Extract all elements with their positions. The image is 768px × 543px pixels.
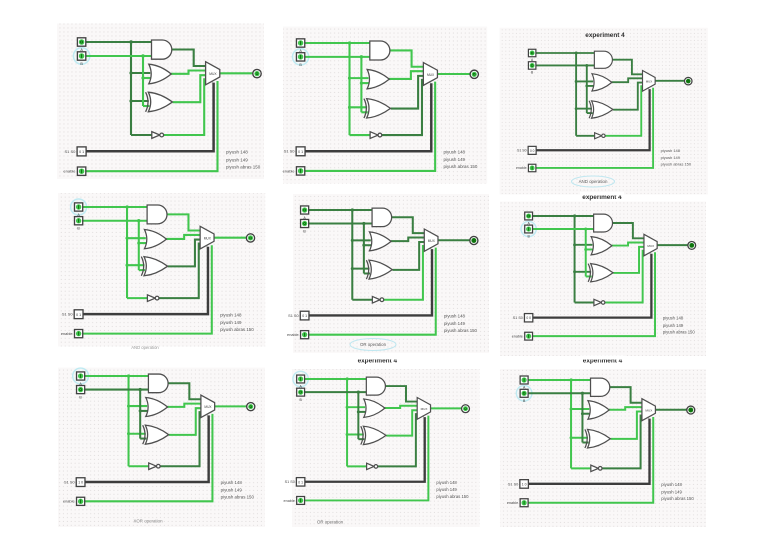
title "experiment 4" above panel 9	[581, 355, 625, 364]
wire: 2-bit select bus from S1S0 pin to MUX (panel 4)	[83, 247, 208, 314]
OR gate (panel 4)	[144, 230, 166, 249]
selection halo around pin B (panel 1)	[73, 48, 89, 64]
svg-text:piyush 149: piyush 149	[444, 157, 466, 162]
wire: OR gate output to MUX input 1 (panel 3)	[612, 78, 643, 82]
AND gate (panel 4)	[147, 205, 167, 224]
XOR gate (panel 1)	[146, 92, 173, 112]
input pin enable (panel 2)	[296, 167, 304, 175]
svg-text:piyush abras 150: piyush abras 150	[220, 327, 254, 332]
svg-text:enable: enable	[63, 169, 76, 174]
output pin (panel 1)	[253, 69, 261, 77]
selection halo around pin A (panel 4)	[71, 199, 87, 215]
multiplexer MUX (panel 2)	[423, 63, 437, 86]
title "experiment 4" above panel 8	[355, 355, 399, 364]
XOR gate (panel 5)	[366, 260, 392, 279]
wire: net B from pin B to AND/OR/XOR inputs (panel 2)	[305, 57, 370, 112]
output pin (panel 8)	[462, 405, 470, 413]
input pin enable (panel 4)	[74, 330, 82, 338]
wire: net B from pin B to AND/OR/XOR inputs (panel 9)	[528, 393, 590, 442]
caption oval "AND operation" under panel 3	[572, 176, 615, 187]
wire: OR gate output to MUX input 1 (panel 4)	[166, 235, 200, 239]
input pin A (panel 7)	[77, 372, 85, 380]
OR gate (panel 7)	[146, 398, 168, 417]
output pin (panel 4)	[246, 234, 254, 242]
annotation text piyush (panel 6)	[663, 316, 695, 335]
svg-text:piyush 149: piyush 149	[444, 321, 466, 326]
wire: NOT gate output to MUX input 3 (panel 3)	[605, 86, 642, 136]
svg-text:0 1: 0 1	[298, 150, 303, 154]
svg-text:piyush 148: piyush 148	[444, 149, 466, 154]
output pin (panel 9)	[687, 406, 695, 414]
wire: enable from pin to MUX (panel 2)	[305, 82, 435, 171]
wire: MUX output to output pin (panel 2)	[437, 73, 469, 75]
wire: net B from pin B to AND/OR/XOR inputs (panel 7)	[85, 390, 149, 439]
annotation text piyush (panel 3)	[661, 148, 692, 166]
svg-text:piyush 149: piyush 149	[663, 323, 684, 328]
output pin (panel 7)	[247, 403, 255, 411]
wire: AND gate output to MUX input 0 (panel 4)	[167, 214, 201, 230]
wire: OR gate output to MUX input 1 (panel 1)	[171, 71, 206, 74]
svg-text:AND operation: AND operation	[579, 179, 608, 184]
wire: net A from pin A to AND/OR/XOR/NOT inputs (panel 9)	[528, 380, 590, 468]
wire: AND gate output to MUX input 0 (panel 8)	[385, 386, 417, 402]
input pin B (panel 1)	[77, 52, 85, 60]
XOR gate (panel 4)	[141, 257, 167, 276]
input pin enable (panel 1)	[77, 167, 85, 175]
svg-text:0 1: 0 1	[298, 480, 303, 484]
input pin enable (panel 5)	[301, 331, 309, 339]
input pin A (panel 2)	[296, 39, 304, 47]
OR gate (panel 3)	[592, 74, 612, 91]
input pin B (panel 6)	[525, 225, 533, 233]
svg-text:MUX: MUX	[428, 239, 436, 243]
svg-text:piyush 148: piyush 148	[663, 316, 684, 321]
wire: enable from pin to MUX (panel 9)	[528, 417, 653, 503]
input pin A (panel 5)	[301, 206, 309, 214]
svg-text:piyush 148: piyush 148	[444, 314, 466, 319]
svg-text:piyush abras 150: piyush abras 150	[444, 328, 478, 333]
wire: OR gate output to MUX input 1 (panel 7)	[167, 404, 201, 407]
input pin enable (panel 9)	[520, 499, 528, 507]
input pin enable (panel 8)	[297, 497, 305, 505]
wire: XOR gate output to MUX input 2 (panel 8)	[386, 410, 417, 435]
svg-text:piyush 148: piyush 148	[661, 148, 681, 153]
wire: NOT gate output to MUX input 3 (panel 1)	[164, 79, 206, 135]
input pin A (panel 9)	[520, 376, 528, 384]
svg-text:piyush 149: piyush 149	[226, 157, 248, 162]
OR gate (panel 2)	[367, 69, 389, 88]
wire: enable from pin to MUX (panel 1)	[86, 81, 218, 171]
XOR gate (panel 3)	[589, 101, 613, 118]
junction dots on net A (panel 2)	[348, 41, 351, 109]
svg-text:piyush 148: piyush 148	[436, 480, 457, 485]
svg-text:0 0: 0 0	[530, 149, 535, 153]
input pin enable (panel 3)	[528, 164, 535, 171]
wire: OR gate output to MUX input 1 (panel 2)	[389, 71, 423, 79]
wire: enable from pin to MUX (panel 7)	[85, 414, 213, 501]
annotation text piyush (panel 8)	[436, 480, 469, 499]
svg-text:piyush abras 150: piyush abras 150	[226, 164, 261, 169]
junction dot on net B (panel 2)	[360, 55, 363, 85]
multiplexer MUX (panel 1)	[206, 62, 220, 85]
wire: AND gate output to MUX input 0 (panel 6)	[612, 223, 644, 238]
svg-text:S1 S0: S1 S0	[508, 482, 518, 486]
svg-text:0 1: 0 1	[76, 313, 81, 317]
multiplexer MUX (panel 9)	[642, 399, 655, 421]
wire: AND gate output to MUX input 0 (panel 2)	[389, 50, 423, 66]
wire: net B from pin B to AND/OR/XOR inputs (panel 3)	[536, 65, 594, 113]
wire: XOR gate output to MUX input 2 (panel 4)	[168, 240, 200, 267]
svg-text:piyush 149: piyush 149	[221, 488, 243, 493]
wire: NOT gate output to MUX input 3 (panel 9)	[602, 415, 642, 468]
wire: 2-bit select bus from S1S0 pin to MUX (panel 3)	[536, 89, 650, 150]
wire: MUX output to output pin (panel 5)	[438, 239, 470, 241]
input pin S1 S0 2-bit (panel 3)	[528, 146, 536, 154]
multiplexer MUX (panel 4)	[200, 226, 214, 249]
svg-text:piyush 148: piyush 148	[661, 482, 682, 487]
OR gate (panel 8)	[364, 399, 385, 417]
selection halo around pin A (panel 8)	[293, 371, 308, 386]
annotation text piyush (panel 2)	[444, 149, 478, 169]
AND gate (panel 5)	[372, 208, 392, 227]
AND gate (panel 1)	[152, 40, 172, 59]
wire: OR gate output to MUX input 1 (panel 6)	[612, 243, 644, 246]
svg-text:MUX: MUX	[204, 237, 212, 241]
svg-text:XOR operation: XOR operation	[133, 519, 163, 524]
wire: MUX output to output pin (panel 3)	[655, 80, 684, 82]
svg-text:0 1: 0 1	[79, 150, 84, 154]
wire: net A from pin A to AND/OR/XOR/NOT inputs (panel 1)	[86, 42, 152, 135]
wire: AND gate output to MUX input 0 (panel 7)	[168, 383, 201, 399]
NOT gate (panel 2)	[370, 132, 382, 139]
wire: net B from pin B to AND/OR/XOR inputs (panel 1)	[86, 56, 152, 106]
wire: 2-bit select bus from S1S0 pin to MUX (panel 1)	[86, 83, 214, 152]
XOR gate (panel 6)	[588, 264, 613, 282]
wire: XOR gate output to MUX input 2 (panel 7)	[169, 408, 201, 435]
wire: MUX output to output pin (panel 1)	[220, 72, 253, 74]
selection halo around pin B (panel 2)	[292, 49, 308, 65]
XOR gate (panel 2)	[364, 99, 391, 118]
NOT gate (panel 7)	[149, 463, 160, 470]
selection halo around pin B (panel 6)	[521, 221, 536, 236]
svg-text:piyush abras 150: piyush abras 150	[663, 330, 695, 335]
input pin B (panel 9)	[520, 389, 528, 397]
svg-text:enable: enable	[507, 501, 518, 505]
wire: NOT gate output to MUX input 3 (panel 5)	[384, 246, 425, 300]
junction dots on net A (panel 6)	[573, 214, 576, 273]
svg-text:piyush 149: piyush 149	[661, 489, 682, 494]
wire: OR gate output to MUX input 1 (panel 8)	[385, 406, 418, 408]
AND gate (panel 8)	[366, 377, 385, 395]
junction dot on net B (panel 7)	[139, 388, 142, 413]
svg-text:0 1: 0 1	[302, 314, 307, 318]
wire: net B from pin B to AND/OR/XOR inputs (panel 4)	[83, 221, 147, 270]
svg-text:AND operation: AND operation	[131, 345, 159, 350]
wire: net A from pin A to AND/OR/XOR/NOT inputs (panel 3)	[536, 53, 594, 136]
svg-text:experiment 4: experiment 4	[585, 32, 625, 39]
input pin enable (panel 6)	[525, 332, 533, 340]
junction dots on net A (panel 5)	[351, 208, 354, 270]
OR gate (panel 5)	[369, 232, 391, 251]
input pin S1 S0 2-bit (panel 4)	[74, 310, 83, 319]
wire: MUX output to output pin (panel 8)	[431, 407, 462, 409]
multiplexer MUX (panel 8)	[417, 398, 430, 420]
input pin S1 S0 2-bit (panel 1)	[77, 147, 86, 156]
svg-text:enable: enable	[512, 334, 523, 338]
junction dot on net B (panel 4)	[137, 219, 140, 245]
wire: NOT gate output to MUX input 3 (panel 7)	[160, 412, 201, 466]
svg-text:piyush 148: piyush 148	[226, 150, 248, 155]
svg-text:S1 S0: S1 S0	[513, 316, 523, 320]
svg-text:enable: enable	[287, 333, 299, 337]
input pin S1 S0 2-bit (panel 6)	[524, 314, 532, 322]
wire: MUX output to output pin (panel 6)	[657, 244, 688, 246]
wire: MUX output to output pin (panel 7)	[215, 405, 247, 407]
svg-text:MUX: MUX	[427, 73, 435, 77]
junction dot on net B (panel 6)	[584, 227, 587, 251]
selection halo around pin B (panel 9)	[516, 386, 532, 402]
wire: net A from pin A to AND/OR/XOR/NOT inputs (panel 2)	[305, 43, 370, 135]
OR gate (panel 1)	[149, 64, 171, 84]
annotation text piyush (panel 7)	[221, 480, 255, 499]
wire: net B from pin B to AND/OR/XOR inputs (panel 6)	[533, 229, 594, 276]
junction dot on net B (panel 9)	[581, 392, 584, 416]
junction dot on net B (panel 1)	[141, 54, 144, 79]
svg-text:S1 S0: S1 S0	[517, 149, 527, 153]
junction dot on net B (panel 8)	[357, 391, 360, 414]
wire: NOT gate output to MUX input 3 (panel 6)	[605, 251, 644, 303]
output pin (panel 2)	[470, 70, 478, 78]
multiplexer MUX (panel 6)	[644, 234, 657, 255]
wire: AND gate output to MUX input 0 (panel 5)	[391, 217, 424, 233]
wire: NOT gate output to MUX input 3 (panel 2)	[382, 80, 424, 135]
wire: 2-bit select bus from S1S0 pin to MUX (panel 2)	[305, 83, 431, 151]
caption oval "OR operation" under panel 5	[350, 339, 396, 351]
NOT gate (panel 6)	[594, 299, 605, 305]
svg-text:piyush 149: piyush 149	[661, 155, 681, 160]
svg-text:piyush abras 150: piyush abras 150	[661, 496, 694, 501]
svg-text:S1 S0: S1 S0	[62, 312, 73, 317]
svg-text:S1 S0: S1 S0	[64, 149, 76, 154]
wire: AND gate output to MUX input 0 (panel 3)	[612, 60, 643, 75]
wire: enable from pin to MUX (panel 3)	[536, 88, 653, 168]
wire: XOR gate output to MUX input 2 (panel 2)	[391, 76, 424, 109]
AND gate (panel 2)	[370, 41, 390, 60]
junction dots on net A (panel 1)	[129, 40, 132, 102]
NOT gate (panel 5)	[372, 296, 383, 303]
junction dot on net B (panel 3)	[585, 64, 588, 87]
NOT gate (panel 8)	[367, 463, 378, 469]
output pin (panel 5)	[470, 236, 478, 244]
input pin enable (panel 7)	[77, 497, 85, 505]
junction dots on net A (panel 7)	[127, 374, 130, 435]
selection halo around pin A (panel 7)	[73, 368, 89, 384]
junction dots on net A (panel 4)	[125, 205, 128, 266]
junction dots on net A (panel 9)	[569, 378, 572, 439]
AND gate (panel 6)	[594, 214, 613, 232]
svg-text:MUX: MUX	[421, 407, 428, 411]
wire: enable from pin to MUX (panel 4)	[83, 245, 212, 333]
svg-text:piyush 149: piyush 149	[220, 320, 242, 325]
svg-text:MUX: MUX	[646, 80, 653, 84]
wire: XOR gate output to MUX input 2 (panel 6)	[613, 247, 644, 273]
wire: net A from pin A to AND/OR/XOR/NOT inputs (panel 6)	[533, 216, 594, 302]
input pin S1 S0 2-bit (panel 9)	[520, 480, 529, 489]
wire: net A from pin A to AND/OR/XOR/NOT inputs (panel 8)	[305, 379, 367, 466]
wire: enable from pin to MUX (panel 8)	[305, 416, 429, 501]
wire: net A from pin A to AND/OR/XOR/NOT inputs (panel 4)	[83, 207, 147, 298]
wire: MUX output to output pin (panel 4)	[214, 237, 246, 239]
svg-text:0 0: 0 0	[526, 316, 531, 320]
NOT gate (panel 1)	[152, 132, 164, 139]
svg-text:S1 S0: S1 S0	[288, 314, 299, 318]
title "experiment 4" above panel 6	[580, 192, 624, 201]
svg-text:piyush 149: piyush 149	[436, 487, 457, 492]
wire: 2-bit select bus from S1S0 pin to MUX (panel 6)	[533, 254, 652, 318]
svg-text:OR operation: OR operation	[360, 342, 387, 347]
wire: net B from pin B to AND/OR/XOR inputs (panel 8)	[305, 392, 367, 439]
svg-text:enable: enable	[283, 168, 296, 173]
input pin B (panel 7)	[77, 386, 85, 394]
svg-text:MUX: MUX	[647, 244, 654, 248]
OR gate (panel 9)	[588, 401, 609, 420]
input pin S1 S0 2-bit (panel 2)	[296, 147, 305, 156]
input pin B (panel 2)	[296, 53, 304, 61]
input pin S1 S0 2-bit (panel 8)	[296, 478, 304, 486]
svg-text:piyush 148: piyush 148	[220, 312, 242, 317]
svg-text:S1 S0: S1 S0	[284, 149, 296, 154]
wire: 2-bit select bus from S1S0 pin to MUX (panel 8)	[305, 417, 425, 482]
output pin (panel 6)	[688, 241, 696, 249]
svg-text:enable: enable	[284, 499, 295, 503]
input pin S1 S0 2-bit (panel 5)	[300, 311, 309, 320]
wire: net B from pin B to AND/OR/XOR inputs (panel 5)	[309, 224, 372, 274]
wire: XOR gate output to MUX input 2 (panel 1)	[173, 75, 206, 102]
svg-text:enable: enable	[516, 166, 527, 170]
svg-text:piyush abras 150: piyush abras 150	[661, 161, 692, 166]
AND gate (panel 3)	[594, 51, 612, 68]
NOT gate (panel 4)	[147, 295, 159, 302]
multiplexer MUX (panel 7)	[201, 395, 215, 417]
annotation text piyush (panel 5)	[444, 314, 478, 333]
svg-text:MUX: MUX	[204, 405, 212, 409]
input pin A (panel 3)	[528, 49, 535, 56]
wire: NOT gate output to MUX input 3 (panel 8)	[378, 414, 417, 466]
svg-text:MUX: MUX	[645, 409, 653, 413]
NOT gate (panel 9)	[591, 465, 602, 471]
wire: 2-bit select bus from S1S0 pin to MUX (panel 5)	[309, 249, 432, 315]
svg-text:1 0: 1 0	[522, 482, 527, 486]
wire: XOR gate output to MUX input 2 (panel 5)	[392, 242, 424, 270]
wire: 2-bit select bus from S1S0 pin to MUX (panel 7)	[85, 415, 209, 482]
input pin B (panel 4)	[74, 217, 82, 225]
wire: XOR gate output to MUX input 2 (panel 9)	[611, 412, 642, 439]
multiplexer MUX (panel 5)	[424, 229, 438, 251]
wire: net A from pin A to AND/OR/XOR/NOT inputs (panel 5)	[309, 210, 372, 300]
svg-text:enable: enable	[63, 499, 75, 504]
OR gate (panel 6)	[591, 237, 612, 255]
svg-text:OR operation: OR operation	[317, 520, 344, 525]
wire: AND gate output to MUX input 0 (panel 1)	[171, 50, 205, 67]
svg-text:MUX: MUX	[209, 72, 217, 76]
AND gate (panel 7)	[148, 374, 168, 393]
svg-text:enable: enable	[61, 331, 73, 336]
junction dots on net A (panel 8)	[345, 377, 348, 436]
input pin A (panel 1)	[77, 38, 85, 46]
input pin A (panel 8)	[297, 375, 305, 383]
input pin B (panel 8)	[297, 388, 305, 396]
input pin A (panel 6)	[525, 212, 533, 220]
svg-text:piyush abras 150: piyush abras 150	[221, 495, 255, 500]
svg-text:piyush abras 150: piyush abras 150	[444, 164, 478, 169]
wire: enable from pin to MUX (panel 5)	[309, 248, 436, 335]
annotation text piyush (panel 1)	[226, 150, 261, 170]
wire: enable from pin to MUX (panel 6)	[533, 252, 655, 336]
svg-text:piyush abras 150: piyush abras 150	[436, 494, 469, 499]
wire: 2-bit select bus from S1S0 pin to MUX (panel 9)	[528, 419, 649, 484]
junction dot on net B (panel 5)	[362, 222, 365, 247]
annotation text piyush (panel 4)	[220, 312, 254, 332]
wire: AND gate output to MUX input 0 (panel 9)	[609, 387, 642, 403]
wire: NOT gate output to MUX input 3 (panel 4)	[159, 244, 200, 299]
wire: MUX output to output pin (panel 9)	[655, 409, 686, 411]
XOR gate (panel 8)	[361, 426, 386, 444]
XOR gate (panel 7)	[143, 425, 169, 444]
wire: OR gate output to MUX input 1 (panel 5)	[391, 238, 424, 242]
svg-text:1 0: 1 0	[78, 481, 83, 485]
wire: XOR gate output to MUX input 2 (panel 3)	[613, 83, 642, 110]
output pin (panel 3)	[685, 77, 692, 84]
wire: OR gate output to MUX input 1 (panel 9)	[609, 407, 642, 410]
input pin B (panel 5)	[301, 219, 309, 227]
AND gate (panel 9)	[591, 378, 610, 396]
input pin B (panel 3)	[528, 62, 535, 69]
input pin S1 S0 2-bit (panel 7)	[76, 478, 85, 487]
multiplexer MUX (panel 3)	[643, 71, 656, 92]
NOT gate (panel 3)	[595, 133, 606, 139]
junction dots on net A (panel 3)	[575, 51, 578, 110]
wire: net A from pin A to AND/OR/XOR/NOT inputs (panel 7)	[85, 376, 149, 466]
XOR gate (panel 9)	[585, 429, 610, 448]
input pin A (panel 4)	[74, 203, 82, 211]
svg-text:piyush 148: piyush 148	[221, 480, 243, 485]
svg-text:S1 S0: S1 S0	[64, 479, 75, 484]
svg-text:S1 S0: S1 S0	[285, 480, 295, 484]
annotation text piyush (panel 9)	[661, 482, 694, 501]
